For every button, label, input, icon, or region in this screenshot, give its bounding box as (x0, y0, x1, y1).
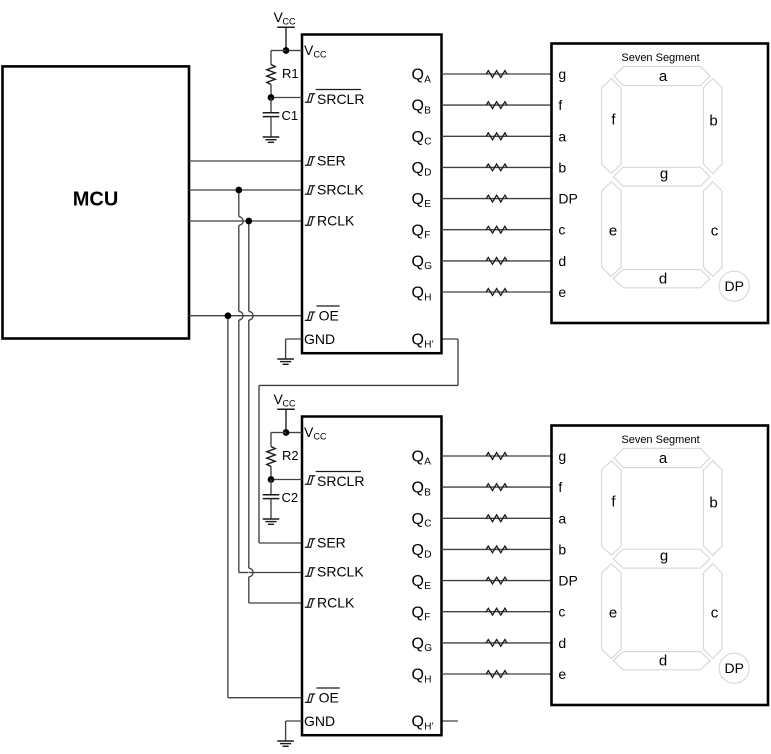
svg-text:Q: Q (412, 222, 424, 239)
svg-text:e: e (609, 223, 617, 240)
svg-text:R2: R2 (282, 448, 299, 463)
svg-text:B: B (424, 105, 431, 116)
svg-text:Q: Q (412, 449, 424, 466)
svg-text:Q: Q (412, 160, 424, 177)
svg-text:RCLK: RCLK (317, 595, 355, 611)
svg-text:Q: Q (412, 667, 424, 684)
svg-text:E: E (424, 581, 431, 592)
svg-text:a: a (558, 510, 566, 526)
svg-text:C2: C2 (282, 490, 299, 505)
svg-text:a: a (659, 68, 668, 85)
svg-text:H’: H’ (424, 339, 433, 350)
svg-text:Q: Q (412, 542, 424, 559)
svg-text:c: c (711, 223, 719, 240)
svg-text:H’: H’ (424, 721, 433, 732)
svg-text:MCU: MCU (73, 189, 119, 211)
svg-text:a: a (659, 450, 668, 467)
svg-text:DP: DP (724, 278, 743, 294)
svg-text:a: a (558, 128, 566, 144)
svg-text:G: G (424, 643, 432, 654)
svg-text:OE: OE (319, 689, 339, 705)
svg-text:d: d (659, 271, 667, 288)
svg-text:e: e (609, 605, 617, 622)
svg-text:Q: Q (412, 714, 424, 731)
svg-text:DP: DP (558, 191, 577, 207)
svg-text:Seven Segment: Seven Segment (621, 434, 699, 446)
svg-text:V: V (304, 424, 314, 440)
svg-text:CC: CC (314, 432, 327, 442)
svg-text:g: g (558, 66, 566, 82)
svg-text:G: G (424, 261, 432, 272)
svg-text:Q: Q (412, 129, 424, 146)
svg-text:Q: Q (412, 285, 424, 302)
svg-text:f: f (558, 97, 562, 113)
svg-text:RCLK: RCLK (317, 213, 355, 229)
svg-text:CC: CC (283, 399, 296, 409)
svg-text:CC: CC (283, 17, 296, 27)
svg-text:Seven Segment: Seven Segment (621, 52, 699, 64)
svg-text:c: c (711, 605, 719, 622)
svg-text:E: E (424, 199, 431, 210)
svg-text:Q: Q (412, 511, 424, 528)
svg-text:GND: GND (304, 331, 335, 347)
svg-text:GND: GND (304, 713, 335, 729)
svg-text:D: D (424, 168, 431, 179)
svg-text:C1: C1 (282, 108, 299, 123)
svg-text:Q: Q (412, 480, 424, 497)
svg-text:V: V (304, 42, 314, 58)
svg-text:CC: CC (314, 50, 327, 60)
svg-text:g: g (660, 548, 668, 565)
svg-text:d: d (558, 253, 566, 269)
svg-text:SRCLR: SRCLR (317, 473, 364, 489)
svg-text:b: b (709, 113, 717, 130)
svg-text:b: b (558, 159, 566, 175)
svg-text:e: e (558, 284, 566, 300)
svg-text:D: D (424, 550, 431, 561)
svg-text:SRCLK: SRCLK (317, 182, 364, 198)
svg-text:g: g (660, 166, 668, 183)
svg-text:Q: Q (412, 573, 424, 590)
svg-text:F: F (424, 230, 430, 241)
svg-text:Q: Q (412, 67, 424, 84)
svg-text:e: e (558, 666, 566, 682)
svg-text:A: A (424, 74, 431, 85)
svg-text:OE: OE (319, 307, 339, 323)
svg-text:A: A (424, 456, 431, 467)
svg-text:Q: Q (412, 191, 424, 208)
svg-text:R1: R1 (282, 66, 299, 81)
svg-text:Q: Q (412, 604, 424, 621)
svg-text:H: H (424, 674, 431, 685)
svg-text:F: F (424, 612, 430, 623)
svg-text:H: H (424, 292, 431, 303)
svg-text:b: b (558, 541, 566, 557)
svg-text:SRCLK: SRCLK (317, 564, 364, 580)
svg-text:d: d (659, 653, 667, 670)
svg-text:c: c (558, 222, 565, 238)
svg-text:SRCLR: SRCLR (317, 91, 364, 107)
svg-text:Q: Q (412, 254, 424, 271)
svg-text:DP: DP (558, 573, 577, 589)
svg-text:C: C (424, 519, 431, 530)
svg-text:DP: DP (724, 660, 743, 676)
svg-text:SER: SER (317, 535, 346, 551)
svg-text:C: C (424, 137, 431, 148)
svg-text:g: g (558, 448, 566, 464)
svg-text:c: c (558, 604, 565, 620)
svg-text:f: f (558, 479, 562, 495)
svg-text:Q: Q (412, 332, 424, 349)
svg-text:Q: Q (412, 636, 424, 653)
svg-text:Q: Q (412, 98, 424, 115)
svg-text:b: b (709, 495, 717, 512)
svg-text:d: d (558, 635, 566, 651)
svg-text:SER: SER (317, 153, 346, 169)
svg-text:B: B (424, 487, 431, 498)
